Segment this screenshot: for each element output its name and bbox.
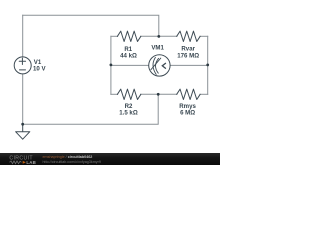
svg-text:44 kΩ: 44 kΩ: [120, 53, 137, 60]
svg-text:6 MΩ: 6 MΩ: [180, 110, 195, 117]
svg-text:emshapringle / circuitlab0462: emshapringle / circuitlab0462: [43, 155, 93, 159]
svg-text:Rvar: Rvar: [181, 45, 195, 52]
svg-text:1.5 kΩ: 1.5 kΩ: [119, 110, 138, 117]
svg-text:LAB: LAB: [26, 160, 36, 165]
svg-text:VM1: VM1: [151, 45, 164, 52]
svg-text:10 V: 10 V: [33, 66, 46, 73]
svg-text:htto://circuitlab.com/c/xxfyag: htto://circuitlab.com/c/xxfyag3kmyr9: [43, 160, 101, 164]
svg-text:176 MΩ: 176 MΩ: [177, 53, 199, 60]
